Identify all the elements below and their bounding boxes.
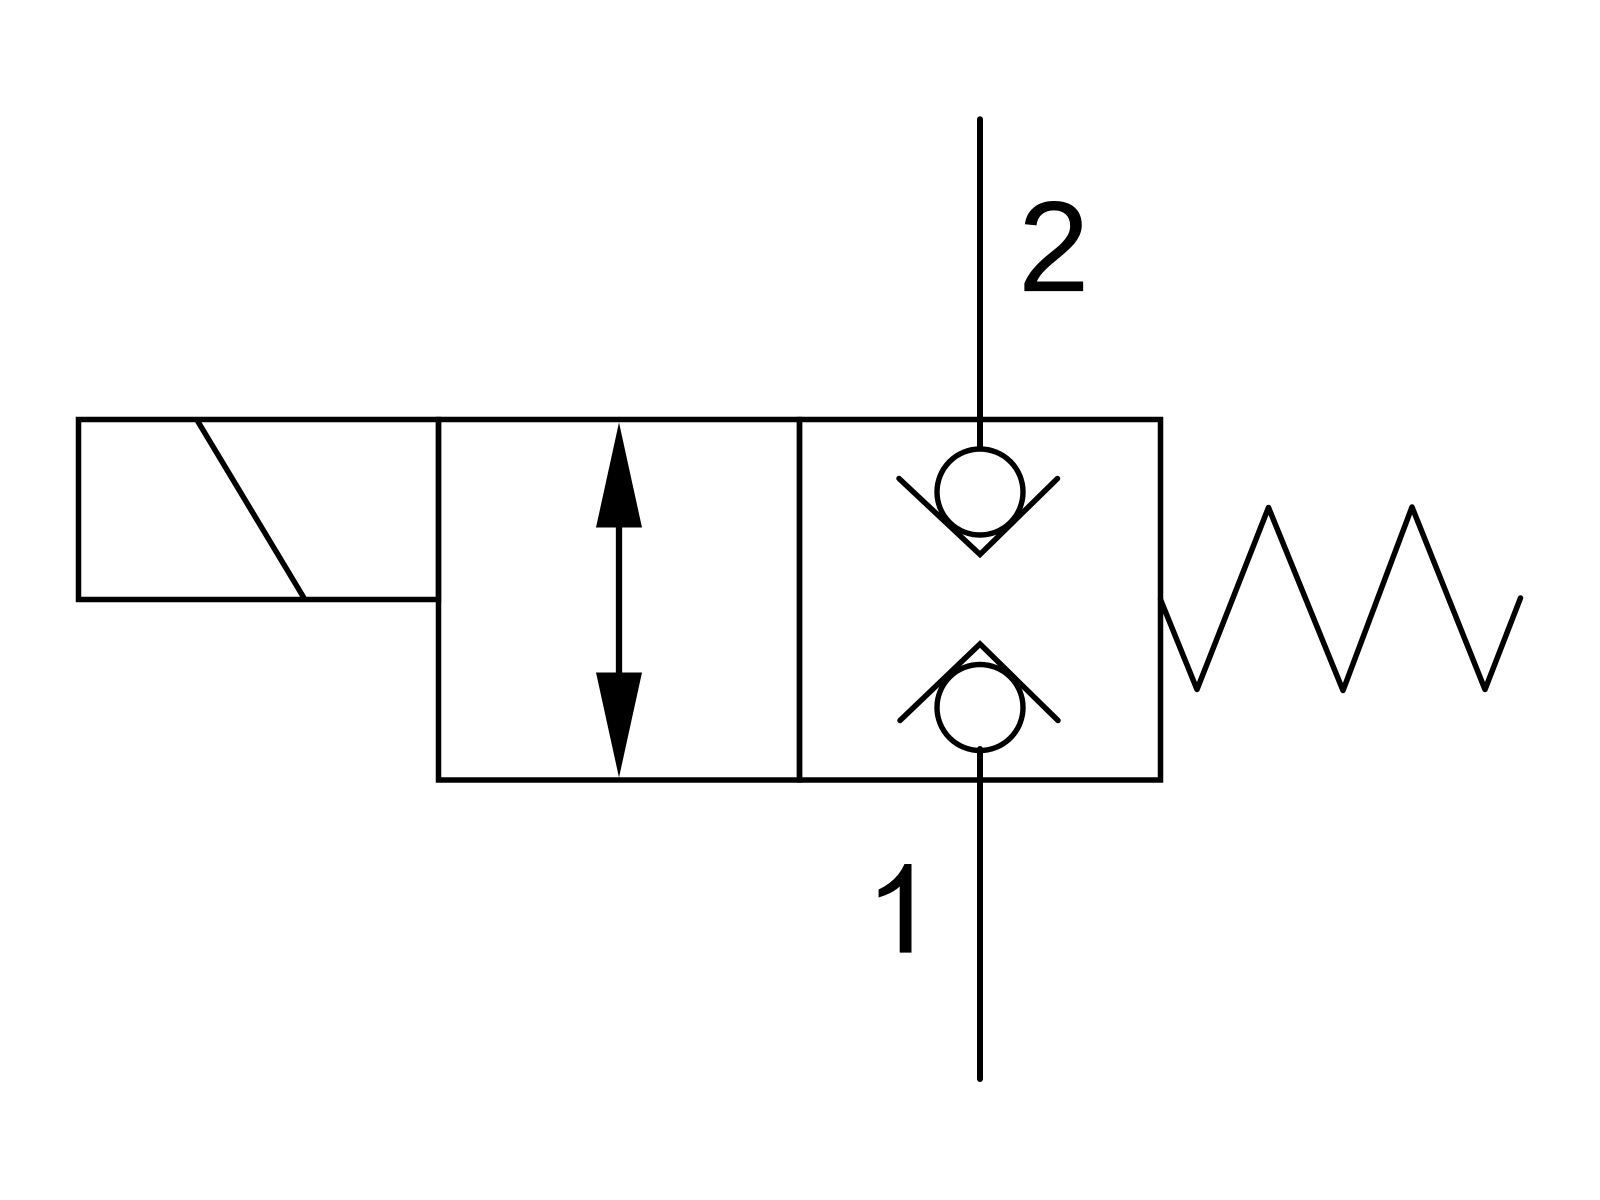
- flow arrow shaft: [616, 510, 622, 690]
- port 2 wire: [977, 119, 983, 448]
- check valve ball top: [937, 449, 1023, 535]
- valve position box right (check position): [800, 420, 1161, 781]
- port 1 wire: [977, 749, 983, 1079]
- svg-text:2: 2: [1018, 175, 1090, 319]
- flow arrow head down: [596, 673, 642, 778]
- return spring: [1161, 507, 1521, 691]
- check valve seat bottom: [900, 644, 1058, 721]
- check valve seat top: [899, 479, 1058, 555]
- solenoid coil diagonal: [197, 420, 304, 598]
- flow arrow head up: [596, 423, 642, 528]
- valve position box left (actuated position): [439, 420, 800, 781]
- check valve ball bottom: [937, 665, 1023, 751]
- port label 1: [879, 864, 912, 953]
- solenoid coil box: [79, 420, 439, 600]
